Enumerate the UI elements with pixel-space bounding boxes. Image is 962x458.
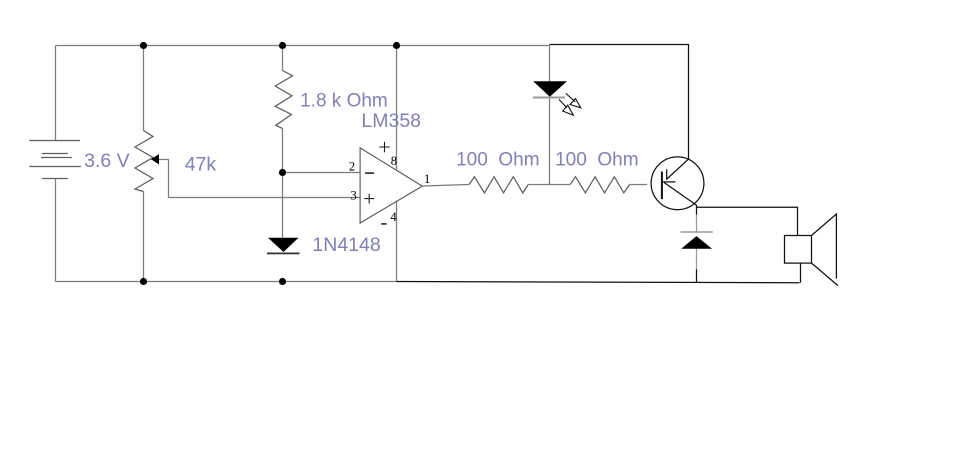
svg-text:2: 2 <box>349 160 355 174</box>
svg-text:LM358: LM358 <box>361 110 421 132</box>
svg-text:100 Ohm: 100 Ohm <box>555 150 638 171</box>
svg-text:100 Ohm: 100 Ohm <box>456 150 539 171</box>
svg-text:1N4148: 1N4148 <box>312 234 380 256</box>
svg-text:3: 3 <box>351 188 357 202</box>
svg-text:1: 1 <box>424 172 430 186</box>
svg-text:3.6 V: 3.6 V <box>84 150 130 172</box>
svg-text:4: 4 <box>390 210 397 224</box>
svg-text:47k: 47k <box>185 153 217 175</box>
svg-text:8: 8 <box>391 154 397 168</box>
svg-text:1.8 k Ohm: 1.8 k Ohm <box>300 91 388 112</box>
